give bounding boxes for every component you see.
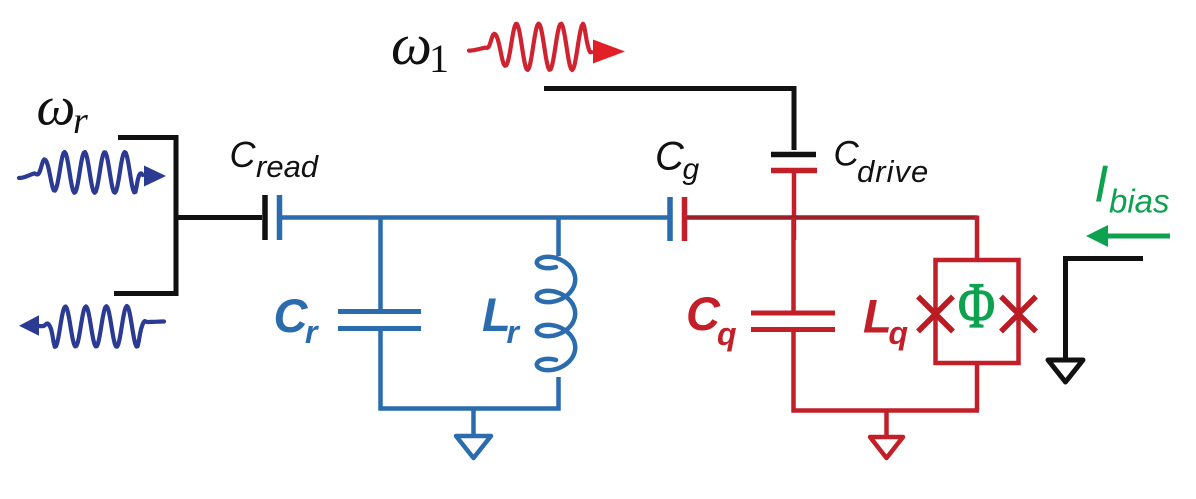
svg-text:C: C: [655, 135, 685, 179]
wire: C_drive down to main node (red): [792, 171, 797, 240]
wire: L_r branch top (blue): [556, 218, 561, 257]
wire: port to C_read (black): [176, 215, 262, 220]
label L_r: [482, 288, 521, 350]
svg-text:Φ: Φ: [958, 269, 995, 341]
label C_g: [655, 135, 700, 187]
wire: qubit bottom rail (red): [792, 408, 980, 413]
wire: input port vertical (black): [174, 135, 179, 296]
wire: L_r branch bottom (blue): [556, 377, 561, 411]
wire: input port top stub (black): [118, 135, 176, 140]
ground (qubit, red): [870, 411, 903, 458]
Josephson junction X (right): [1001, 297, 1036, 332]
wire: SQUID to ground (red): [975, 363, 980, 411]
svg-text:g: g: [683, 153, 700, 186]
wire: C_q branch top (red): [791, 218, 796, 314]
wire: qubit main horizontal rail (red): [687, 215, 977, 220]
inductor L_r: [537, 257, 575, 370]
svg-text:read: read: [256, 149, 320, 184]
svg-text:r: r: [305, 314, 319, 350]
wire: bias line (black): [1066, 259, 1144, 361]
ground (resonator, blue): [456, 409, 491, 458]
wire: input port bottom stub (black): [114, 291, 176, 296]
SQUID loop: [936, 260, 1019, 363]
capacitor C_q: [751, 313, 835, 330]
capacitor C_drive: [771, 155, 817, 171]
capacitor C_read: [265, 195, 280, 240]
input microwave squiggle arrow (omega_r, navy): [19, 152, 166, 193]
svg-text:q: q: [889, 315, 909, 351]
label C_drive: [834, 135, 930, 190]
svg-text:1: 1: [429, 36, 449, 81]
svg-text:ω: ω: [391, 12, 432, 77]
svg-text:r: r: [73, 100, 88, 142]
label C_r: [274, 289, 320, 350]
svg-text:C: C: [686, 287, 721, 340]
label C_read: [230, 134, 320, 184]
drive microwave squiggle arrow (omega_1, red): [469, 24, 625, 70]
svg-text:C: C: [230, 134, 257, 175]
output microwave squiggle arrow (navy): [19, 306, 164, 347]
wave label omega_r: [37, 76, 89, 143]
svg-text:C: C: [834, 135, 860, 174]
svg-text:q: q: [717, 316, 737, 352]
Josephson junction X (left): [918, 297, 953, 332]
label L_q: [863, 290, 908, 352]
label I_bias (green): [1094, 156, 1170, 220]
wire: C_read to C_g (blue resonator top rail): [282, 215, 668, 220]
svg-text:r: r: [507, 314, 521, 350]
svg-text:ω: ω: [37, 76, 76, 137]
wire: C_r branch top (blue): [378, 218, 383, 312]
wire: C_q branch bottom (red): [791, 330, 796, 413]
svg-text:I: I: [1094, 156, 1108, 214]
wave label omega_1: [391, 12, 449, 81]
bias current arrow (green): [1086, 225, 1170, 247]
ground (bias, black): [1048, 360, 1083, 382]
wire: SQUID feed down (red): [975, 216, 980, 261]
capacitor C_r: [338, 312, 421, 329]
label C_q: [686, 287, 737, 352]
wire: drive line top (black): [544, 89, 794, 151]
svg-text:C: C: [274, 289, 309, 342]
svg-text:bias: bias: [1109, 183, 1170, 220]
svg-text:L: L: [863, 290, 892, 343]
capacitor C_g: [670, 197, 685, 241]
wire: C_r branch bottom (blue): [378, 329, 383, 411]
svg-text:drive: drive: [857, 154, 929, 189]
wire: resonator bottom rail (blue): [379, 406, 561, 411]
